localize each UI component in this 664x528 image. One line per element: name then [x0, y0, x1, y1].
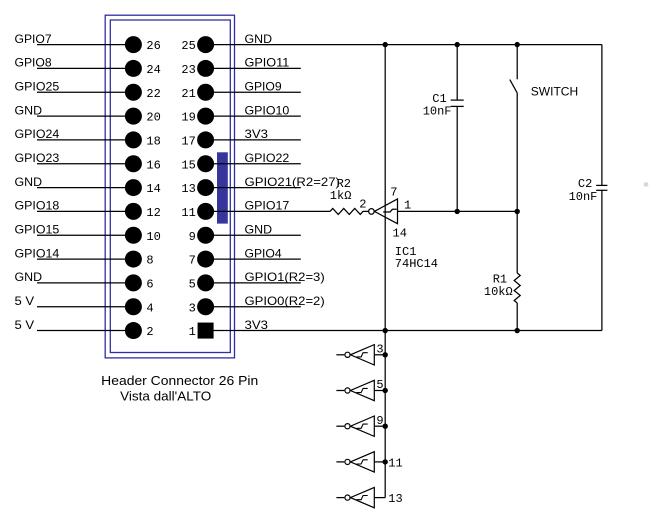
svg-text:10nF: 10nF — [423, 104, 452, 118]
svg-text:GPIO23: GPIO23 — [15, 151, 60, 165]
svg-text:26: 26 — [146, 39, 160, 53]
svg-text:19: 19 — [181, 111, 195, 125]
svg-text:3V3: 3V3 — [245, 318, 269, 332]
svg-text:GPIO14: GPIO14 — [15, 246, 60, 260]
svg-text:74HC14: 74HC14 — [395, 257, 438, 271]
svg-text:7: 7 — [189, 254, 196, 268]
svg-text:5: 5 — [189, 277, 196, 291]
svg-text:GPIO17: GPIO17 — [245, 199, 290, 213]
svg-text:2: 2 — [359, 198, 366, 212]
svg-text:GPIO21(R2=27): GPIO21(R2=27) — [245, 175, 340, 189]
svg-text:3: 3 — [189, 301, 196, 315]
svg-text:16: 16 — [146, 158, 160, 172]
svg-text:18: 18 — [146, 134, 160, 148]
svg-text:17: 17 — [181, 134, 195, 148]
svg-text:11: 11 — [181, 206, 195, 220]
svg-text:GPIO8: GPIO8 — [15, 56, 52, 70]
svg-text:GPIO22: GPIO22 — [245, 151, 290, 165]
svg-text:GND: GND — [15, 270, 43, 284]
svg-text:10kΩ: 10kΩ — [484, 285, 513, 299]
svg-text:GPIO10: GPIO10 — [245, 103, 290, 117]
svg-text:12: 12 — [146, 206, 160, 220]
svg-text:3: 3 — [376, 343, 383, 357]
svg-text:14: 14 — [146, 182, 160, 196]
svg-text:GPIO9: GPIO9 — [245, 79, 282, 93]
svg-text:7: 7 — [390, 186, 397, 200]
svg-text:GPIO25: GPIO25 — [15, 79, 60, 93]
svg-text:8: 8 — [146, 254, 153, 268]
svg-text:24: 24 — [146, 63, 160, 77]
svg-text:1: 1 — [404, 198, 411, 212]
svg-text:GND: GND — [15, 103, 43, 117]
svg-text:23: 23 — [181, 63, 195, 77]
svg-text:GPIO24: GPIO24 — [15, 127, 60, 141]
svg-text:GND: GND — [245, 222, 273, 236]
svg-text:GPIO7: GPIO7 — [15, 32, 52, 46]
svg-text:6: 6 — [146, 277, 153, 291]
svg-text:GPIO1(R2=3): GPIO1(R2=3) — [245, 270, 325, 284]
svg-text:GPIO11: GPIO11 — [245, 56, 290, 70]
svg-text:1: 1 — [189, 325, 196, 339]
svg-text:GND: GND — [15, 175, 43, 189]
svg-text:20: 20 — [146, 111, 160, 125]
svg-text:GPIO15: GPIO15 — [15, 222, 60, 236]
svg-text:GND: GND — [245, 32, 273, 46]
svg-text:13: 13 — [181, 182, 195, 196]
svg-text:25: 25 — [181, 39, 195, 53]
svg-text:5 V: 5 V — [15, 294, 35, 308]
svg-text:3V3: 3V3 — [245, 127, 269, 141]
svg-text:10: 10 — [146, 230, 160, 244]
svg-text:Header Connector 26 Pin: Header Connector 26 Pin — [101, 374, 258, 388]
svg-text:GPIO0(R2=2): GPIO0(R2=2) — [245, 294, 325, 308]
svg-text:22: 22 — [146, 87, 160, 101]
svg-text:11: 11 — [388, 456, 402, 470]
svg-text:4: 4 — [146, 301, 153, 315]
svg-text:SWITCH: SWITCH — [531, 84, 578, 98]
svg-text:1kΩ: 1kΩ — [330, 189, 352, 203]
svg-text:15: 15 — [181, 158, 195, 172]
svg-text:Vista dall'ALTO: Vista dall'ALTO — [120, 390, 211, 404]
svg-text:2: 2 — [146, 325, 153, 339]
svg-text:GPIO4: GPIO4 — [245, 246, 282, 260]
svg-text:9: 9 — [376, 414, 383, 428]
svg-text:9: 9 — [189, 230, 196, 244]
svg-text:5 V: 5 V — [15, 318, 35, 332]
svg-text:5: 5 — [376, 378, 383, 392]
svg-text:10nF: 10nF — [569, 190, 598, 204]
svg-text:14: 14 — [393, 227, 407, 241]
svg-text:21: 21 — [181, 87, 195, 101]
svg-text:GPIO18: GPIO18 — [15, 199, 60, 213]
svg-text:13: 13 — [388, 492, 402, 506]
